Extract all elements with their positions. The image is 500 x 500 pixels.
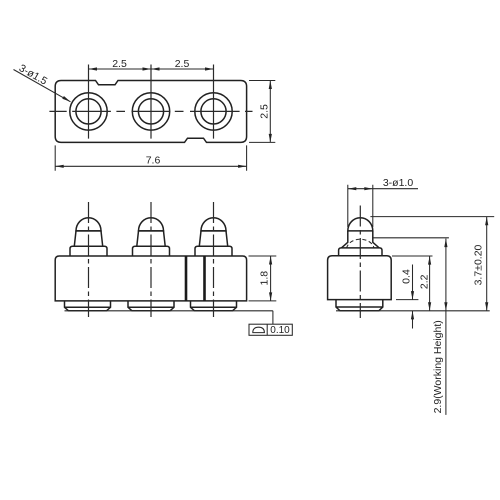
svg-text:2.5: 2.5 (112, 58, 127, 70)
svg-text:0.4: 0.4 (401, 269, 413, 284)
svg-text:2.2: 2.2 (418, 274, 430, 289)
svg-text:3-ø1.0: 3-ø1.0 (383, 177, 414, 189)
svg-text:1.8: 1.8 (259, 271, 271, 286)
svg-text:3.7±0.20: 3.7±0.20 (473, 244, 485, 285)
svg-text:2.5: 2.5 (175, 58, 190, 70)
svg-text:2.9(Working Height): 2.9(Working Height) (432, 320, 444, 413)
svg-text:0.10: 0.10 (270, 325, 290, 336)
svg-text:7.6: 7.6 (146, 155, 161, 167)
svg-text:2.5: 2.5 (259, 104, 271, 119)
